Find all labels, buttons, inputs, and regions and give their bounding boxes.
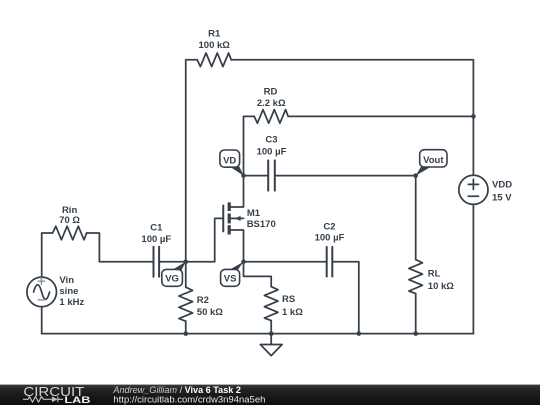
transistor M1 BS170 [223, 176, 243, 262]
label RS value [282, 294, 303, 318]
wire VS node down and over to RS top [244, 262, 272, 287]
svg-text:Vin: Vin [59, 275, 74, 286]
voltage source VDD [459, 175, 488, 204]
node tag VG [162, 262, 186, 287]
svg-text:M1: M1 [247, 208, 261, 219]
wire RD left lead down to VD node [244, 116, 255, 175]
node VDD/RD junction dot [471, 114, 476, 119]
svg-text:1 kHz: 1 kHz [59, 297, 84, 308]
label Vin value [59, 275, 84, 308]
svg-text:50 kΩ: 50 kΩ [197, 307, 223, 318]
label C1 value [141, 223, 171, 246]
wire VG node down through R2 top lead [185, 262, 187, 288]
node tag VS [221, 262, 244, 287]
wire RL bottom to rail [415, 294, 417, 334]
junction R2/rail [183, 331, 188, 336]
junction RL/rail [413, 331, 418, 336]
resistor R1 [197, 53, 231, 67]
wire Vout node down through RL top lead [415, 176, 417, 260]
resistor R2 [179, 287, 193, 321]
wire C2 right plate down to rail [332, 262, 359, 334]
junction ground/rail [269, 331, 274, 336]
node VS junction dot [241, 259, 246, 264]
svg-text:100 µF: 100 µF [257, 147, 287, 158]
svg-text:100 kΩ: 100 kΩ [199, 40, 231, 51]
wire VG node to MOSFET gate [186, 218, 224, 261]
svg-text:2.2 kΩ: 2.2 kΩ [257, 98, 286, 109]
wire RS bottom to rail [270, 321, 272, 334]
svg-text:RS: RS [282, 294, 295, 305]
resistor RD [254, 110, 288, 124]
resistor RS [264, 287, 278, 321]
node tag Vout [416, 150, 447, 176]
wire Vin top up to Rin row [42, 233, 53, 277]
label R2 value [197, 295, 223, 318]
wire VDD source bottom down to rail [472, 204, 474, 333]
wire C3 right plate to Vout node [275, 175, 416, 177]
node tag VD [220, 150, 244, 176]
label C2 value [315, 221, 345, 243]
label VDD value [492, 179, 512, 203]
svg-text:BS170: BS170 [247, 219, 276, 230]
label Rin value [59, 205, 80, 226]
svg-text:70 Ω: 70 Ω [59, 215, 80, 226]
svg-text:VS: VS [224, 274, 237, 285]
label RD value [257, 87, 286, 109]
wire RD right to VDD junction [288, 115, 473, 117]
node Vout junction dot [413, 173, 418, 178]
capacitor C3 [268, 160, 275, 190]
wire from R1 right to VDD column [231, 60, 473, 117]
capacitor C2 [327, 247, 333, 277]
voltage source Vin [27, 277, 57, 307]
node VG junction dot [183, 259, 188, 264]
svg-text:VDD: VDD [492, 179, 512, 190]
svg-text:sine: sine [59, 286, 78, 297]
svg-text:15 V: 15 V [492, 192, 512, 203]
svg-text:100 µF: 100 µF [315, 233, 345, 244]
label R1 value [199, 28, 231, 51]
svg-text:http://circuitlab.com/crdw3n94: http://circuitlab.com/crdw3n94na5eh [113, 395, 265, 405]
svg-text:100 µF: 100 µF [141, 234, 171, 245]
svg-text:LAB: LAB [64, 395, 90, 405]
capacitor C1 [154, 247, 160, 277]
svg-text:R2: R2 [197, 295, 209, 306]
label RL value [428, 269, 454, 293]
wire VDD junction down to VDD source top [472, 116, 474, 175]
svg-text:Vout: Vout [423, 155, 444, 166]
svg-text:VD: VD [223, 156, 236, 167]
wire VD node to C3 left plate [244, 175, 269, 177]
CircuitLab logo wordmark [23, 385, 90, 405]
label M1 BS170 [247, 208, 276, 230]
svg-text:C1: C1 [150, 223, 163, 234]
svg-text:RD: RD [264, 87, 278, 98]
wire bottom rail [42, 333, 474, 335]
CircuitLab logo waveform [23, 396, 63, 402]
node VD junction dot [241, 173, 246, 178]
wire Rin right bend down to C1 row [87, 233, 154, 262]
svg-text:VG: VG [165, 274, 179, 285]
resistor RL [409, 260, 423, 294]
wire from VG node up to R1 left [186, 60, 197, 262]
svg-text:C2: C2 [323, 221, 335, 232]
wire VS node to C2 left plate [244, 261, 327, 263]
svg-text:1 kΩ: 1 kΩ [282, 307, 303, 318]
svg-text:R1: R1 [208, 28, 221, 39]
junction C2 branch/rail [357, 331, 362, 336]
label C3 value [257, 135, 287, 158]
resistor Rin [53, 226, 87, 240]
wire Vin bottom to rail [41, 307, 43, 334]
svg-text:10 kΩ: 10 kΩ [428, 281, 454, 292]
wire C1 right plate to VG node [159, 261, 186, 263]
footer bar [0, 385, 540, 405]
svg-text:C3: C3 [265, 135, 277, 146]
svg-text:RL: RL [428, 269, 441, 280]
ground [260, 334, 282, 356]
wire R2 bottom to rail [185, 321, 187, 333]
